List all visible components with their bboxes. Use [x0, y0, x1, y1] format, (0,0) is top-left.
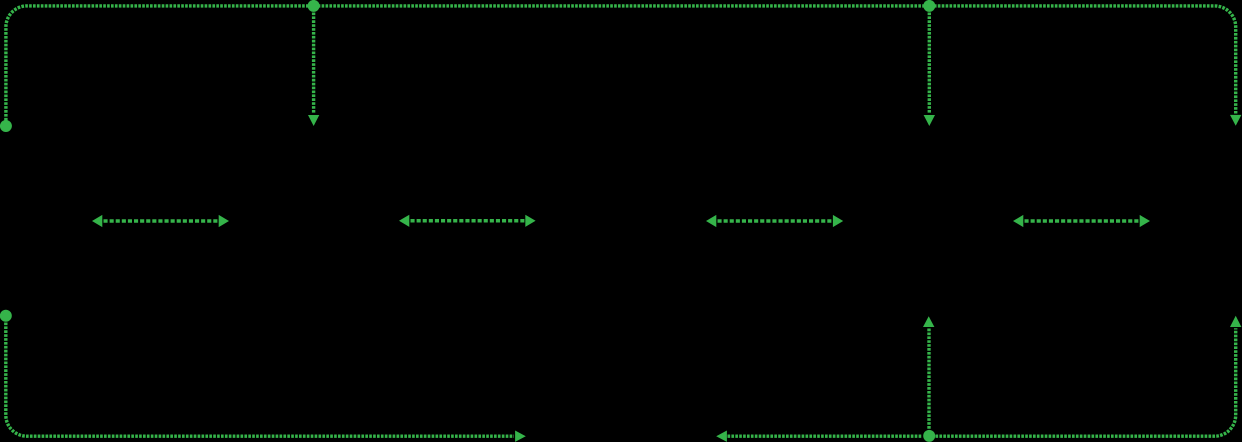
- wire: vertical drop from node B: [312, 13, 315, 114]
- arrowhead left at bottom-center-right: [716, 431, 727, 442]
- node C (source dot on top line, x=929): [923, 0, 935, 12]
- bidirectional arrow 4 (middle row): [1013, 215, 1150, 227]
- arrowhead right at bottom-center-left: [515, 431, 526, 442]
- arrowhead up at right edge: [1230, 316, 1241, 327]
- node D (source dot, left edge lower): [0, 310, 12, 322]
- arrowhead down at x=929: [924, 115, 935, 126]
- arrowhead up at x=929: [923, 316, 934, 327]
- wire: vertical drop from node C: [928, 13, 931, 114]
- wire: bottom-left loop down and along bottom: [6, 323, 514, 437]
- wire: bottom segment from node E leftward: [728, 435, 923, 438]
- bidirectional arrow 3 (middle row): [706, 215, 843, 227]
- node B (source dot on top line, x=313): [308, 0, 320, 12]
- wire: vertical rise from node E: [927, 328, 930, 429]
- bidirectional arrow 1 (middle row): [92, 215, 229, 227]
- node A (source dot, left edge upper): [0, 120, 12, 132]
- arrowhead down at x=313: [308, 115, 319, 126]
- wire: bottom-right loop from node E up the right edge: [936, 328, 1236, 436]
- arrowhead down at top-right: [1230, 115, 1241, 126]
- node E (source dot on bottom line, x=929): [923, 430, 935, 442]
- wire: top loop from left node up across the top to right edge: [6, 6, 1236, 121]
- bidirectional arrow 2 (middle row): [399, 215, 536, 227]
